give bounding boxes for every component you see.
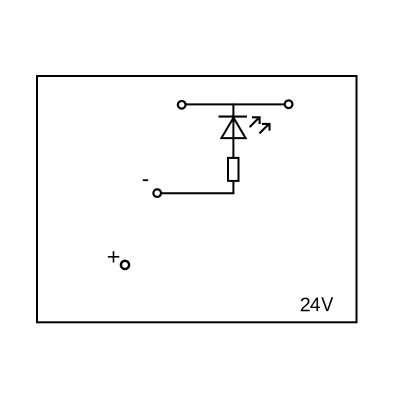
LED arrow 2 — [260, 124, 270, 133]
wire top bus — [183, 103, 287, 105]
LED cathode bar — [219, 116, 248, 118]
terminal 1 (top left) — [178, 101, 186, 109]
LED arrow 1 — [250, 117, 260, 127]
terminal 3 (minus) — [153, 189, 161, 197]
label minus — [143, 179, 148, 181]
terminal 4 (plus) — [121, 261, 129, 269]
resistor body — [228, 158, 239, 181]
label plus — [108, 251, 120, 262]
enclosure outline — [37, 76, 357, 322]
terminal 2 (top right) — [285, 100, 293, 108]
label 24V — [301, 297, 334, 311]
wire resistor to minus terminal — [160, 181, 233, 193]
LED triangle (anode) — [221, 118, 245, 139]
wire vertical through LED — [232, 103, 234, 158]
